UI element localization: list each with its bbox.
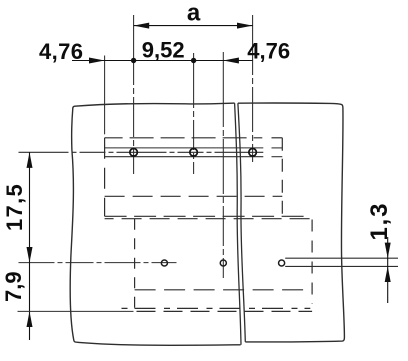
bottom hole 2: [220, 260, 226, 266]
svg-text:a: a: [187, 0, 201, 26]
break line left: [235, 103, 241, 345]
svg-text:4,76: 4,76: [247, 39, 290, 64]
arrow pointing left at x=223.3: [223, 58, 239, 64]
top hole 3: [249, 149, 257, 157]
break line right: [238, 103, 245, 342]
bottom hole 1: [161, 260, 167, 266]
down arrow tip y=258.2: [385, 243, 391, 259]
extension/centerline x=133.6 (top hole 1): [133, 15, 135, 174]
up arrow tip y=311.5: [27, 311, 33, 327]
svg-text:17,5: 17,5: [2, 183, 27, 231]
svg-text:4,76: 4,76: [39, 39, 83, 64]
hidden tangent dashes right of break: [272, 147, 283, 149]
svg-text:1,3: 1,3: [366, 202, 393, 241]
left vertical dimension line x=29.5: [29, 152, 31, 340]
top hole 2: [190, 149, 198, 157]
centerline horizontal bottom row (left part): [19, 262, 177, 264]
bottom hole 3: [279, 260, 285, 266]
down arrow tip y=262.6: [27, 247, 33, 263]
dimension a: left arrow: [134, 23, 150, 29]
extension line x=104.6 (left 4,76): [104, 56, 106, 135]
extension line y=311.4 (7,9 lower / housing front edge): [18, 310, 134, 312]
slot tangent lines top row (solid): [105, 148, 283, 157]
dimension a: right arrow: [237, 23, 253, 29]
extension/centerline x=193.6 (top hole 2): [193, 53, 195, 174]
extension/centerline x=223.3 (bottom hole 2): [222, 52, 224, 278]
dimension line y=60.5 (9,52 / 4,76): [72, 60, 253, 62]
extension/centerline x=252.6 (top hole 3): [252, 15, 254, 162]
dashed outline rect A (upper connector housing): [105, 138, 305, 217]
top hole 1: [130, 149, 138, 157]
tangent lines from bottom hole 3 to the right (1,3 dia): [285, 257, 398, 259]
dot at 193.6: [191, 58, 196, 63]
right vertical dimension line x=387.7 (1,3): [387, 237, 389, 303]
plate outline (PCB with wavy break edges): [70, 103, 344, 345]
arrow pointing right at x=104.6: [89, 58, 105, 64]
dashed outline rect C (lower connector housing): [105, 219, 313, 312]
dot at 133.6: [131, 58, 136, 63]
svg-text:7,9: 7,9: [1, 271, 26, 302]
up arrow tip y=266.4: [385, 266, 391, 282]
svg-text:9,52: 9,52: [142, 37, 185, 62]
centerline horizontal top row: [19, 151, 264, 153]
up arrow tip y=152.3: [27, 152, 33, 168]
dimension a: line: [134, 25, 253, 27]
